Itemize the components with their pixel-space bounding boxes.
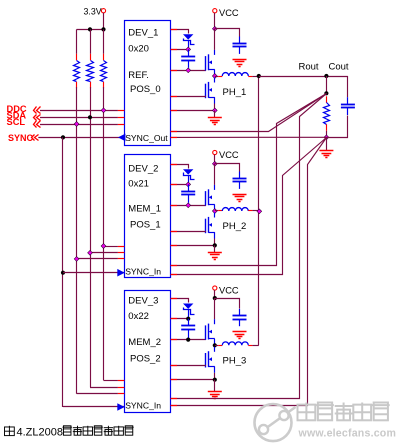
wire resistor R1 top [76,29,78,53]
capacitor C2b boot [181,184,195,202]
junction DEV_2 DDC [101,244,106,249]
pin stubs U1 sense [171,132,177,138]
wire PH_3 lead [215,345,223,347]
svg-text:SYNC_Out: SYNC_Out [125,133,168,143]
wire pin to ground node phase 1 [171,110,215,112]
wire VCC to Q3H drain [214,298,216,319]
svg-text:VCC: VCC [219,286,239,296]
label PH_3 [223,355,247,366]
ground below C2a [233,195,247,202]
svg-text:VCC: VCC [219,8,239,18]
wire resistor R3 top [103,29,105,53]
svg-text:PH_2: PH_2 [223,221,247,232]
wire ground stem phase 1 [214,110,216,117]
svg-text:PH_1: PH_1 [223,87,247,98]
diode D3 zener [183,304,195,315]
wire resistor R2 top [90,29,92,53]
wire Rout bottom [326,131,328,138]
wire SYNC bus vertical x63 [62,137,64,407]
diode D1 zener [183,34,195,44]
wire pin to Q2H gate [171,205,206,207]
transistor Q3L low-side MOSFET [206,347,215,373]
wire VCC to C1a [215,29,240,37]
transistor Q2L low-side MOSFET [206,213,215,239]
svg-text:0x22: 0x22 [128,311,149,322]
svg-text:SYNC_In: SYNC_In [125,400,161,410]
wire to DEV_2 DDC [104,246,118,248]
wire L3 out [248,345,258,347]
pin stub U3 left [118,393,124,395]
svg-text:PH_3: PH_3 [223,355,247,366]
wire pin to Q3L gate [171,365,206,367]
ground below C3a [233,332,247,339]
wire U2 Vout sense [171,94,327,266]
pin SYNC_Out arrow U1 [118,134,125,142]
svg-text:SYNC_In: SYNC_In [125,267,161,277]
node D1/C1b [186,47,191,52]
wire Rout gnd stem [326,137,328,150]
wire D3 to node [188,310,190,319]
wire pin to D2 cathode [171,184,189,186]
power VCC terminal phase 3 [213,286,239,296]
svg-text:Cout: Cout [329,62,349,73]
wire 3.3V down [103,13,105,30]
node ground phase 1 [212,108,217,113]
transistor Q2H high-side MOSFET [206,185,215,211]
capacitor C2a VCC decoupling [233,172,247,189]
junction SCL/x76.6 [74,122,79,127]
wire Q2L source down [214,239,216,246]
wire VCC stem phase 3 [214,290,216,298]
svg-text:DEV_2: DEV_2 [128,163,158,174]
node PH_2 bus [257,209,262,214]
junction SYNC DEV_2 [61,271,65,275]
wire pin to D1 [171,30,189,34]
wire C1b to gate line [188,67,190,70]
pin SYNC_In arrow U2 [117,269,124,277]
controller U3 DEV_3 0x22 [125,291,171,413]
resistor R2 pull-up [87,54,94,89]
capacitor Cout [341,97,355,115]
wire U3 Vout sense [171,94,327,399]
capacitor C1a VCC decoupling [233,37,247,54]
power label 3.3V terminal [84,7,106,17]
wire Q1L source down [214,104,216,111]
wire VCC to C2a [215,164,240,172]
pin stub U1 left [118,117,124,119]
wire SCL [40,124,118,126]
capacitor C1b boot [181,49,195,67]
wire 3.3V rail horizontal [77,29,104,31]
wire VCC to Q2H drain [214,164,216,185]
resistor R1 pull-up [74,54,80,89]
inductor L2 [222,208,248,211]
svg-text:POS_1: POS_1 [130,219,161,230]
watermark logo+text [255,403,397,442]
wire pin to D1 cathode [171,49,189,51]
node N1 sense+ [324,91,328,95]
wire D1 to node [188,41,190,50]
wire SDA [40,117,118,119]
port chevron SCL [34,121,41,128]
node ground phase 2 [213,243,217,247]
wire pin to Q3H gate [171,339,206,341]
power VCC terminal phase 1 [213,8,239,18]
svg-text:3.3V: 3.3V [84,7,102,17]
power VCC terminal phase 2 [213,150,239,160]
node PH_3 [213,343,217,347]
wire pin to D3 [171,299,189,303]
wire DDC [40,110,118,112]
svg-text:POS_0: POS_0 [130,84,161,95]
node D2/C2b [186,182,191,187]
pin stub U2 left [118,246,124,248]
wire C3b to gate line [188,337,190,340]
port chevron SYNC [32,135,39,141]
controller U1 DEV_1 0x20 [125,21,171,146]
wire U1 gnd sense [171,136,327,138]
ground phase 1 [208,118,222,125]
wire C2b to gate line [188,202,190,205]
resistor Rout [324,96,330,131]
wire SCL bus vertical x76.6 [76,87,78,394]
resistor R3 pull-up [101,54,107,89]
junction DDC/x103.5 [101,108,106,113]
svg-text:MEM_2: MEM_2 [128,337,161,348]
svg-text:www.elecfans.com: www.elecfans.com [298,428,397,440]
wire to DEV_3 DDC [104,380,118,382]
wire pin to ground node phase 3 [171,379,215,381]
wire pin to Q2L gate [171,231,206,233]
wire U1 Vout sense [171,94,327,132]
net label SCL [7,117,26,127]
pin stubs U1 right [171,30,177,111]
svg-text:0x20: 0x20 [128,44,149,55]
wire to DEV_2 SYNC_In [63,272,124,274]
node PH_2 [212,209,217,214]
svg-text:SYNC: SYNC [8,133,34,143]
wire Rout top stem [326,76,328,93]
wire VCC stem phase 2 [214,155,216,164]
node VCC phase 2 [212,161,217,166]
pin stub U3 left [118,387,124,389]
label Cout [329,62,349,73]
label PH_2 [223,221,247,232]
pin SYNC_In arrow U3 [117,403,124,411]
ground Rout [319,151,333,158]
node C3b bottom [186,338,190,342]
wire L1 out [248,76,258,78]
junction SDA/x90 [88,115,92,119]
net label DDC [7,104,27,114]
wire SDA bus vertical x90 [90,87,92,387]
capacitor C3b boot [181,319,195,337]
wire to DEV_2 SDA [90,252,118,254]
inductor L3 [222,342,248,345]
wire D2 to node [188,176,190,185]
node C2b bottom [186,203,191,208]
svg-text:POS_2: POS_2 [130,354,161,365]
svg-text:0x21: 0x21 [128,179,149,190]
pin stubs U2 sense [171,266,177,275]
svg-text:4.ZL2008: 4.ZL2008 [17,426,63,438]
wire VCC stem phase 1 [214,13,216,29]
pin stub U2 left [118,258,124,260]
svg-text:DEV_3: DEV_3 [128,296,158,307]
svg-text:VCC: VCC [219,150,239,160]
node output/Rout [324,74,328,78]
title caption [5,426,134,439]
wire to DEV_3 SYNC_In [63,406,124,408]
transistor Q3H high-side MOSFET [206,319,215,345]
wire DDC bus vertical x103.5 [103,87,105,380]
pin stub U3 left [118,380,124,382]
node PH_1 [212,74,217,79]
pin stubs U2 right [171,165,177,246]
wire pin to Q1L gate [171,96,206,98]
svg-text:Rout: Rout [299,62,319,73]
pin stub U1 left [118,110,124,112]
controller U2 DEV_2 0x21 [125,155,171,278]
wire Q3L source down [214,373,216,380]
wire pin to Q1H gate [171,70,206,72]
pin stub U2 left [118,252,124,254]
ground phase 2 [208,253,222,260]
node rail-R3 [101,27,105,31]
node D3/C3b [186,317,190,321]
node ground phase 3 [213,378,217,382]
svg-text:DEV_1: DEV_1 [128,27,158,38]
net label SDA [7,110,27,120]
svg-text:REF.: REF. [128,70,149,81]
wire to DEV_3 SCL [77,393,118,395]
node rail-R2 [88,27,92,31]
ground below C1a [233,60,247,67]
wire VCC to Q1H drain [214,29,216,50]
label PH_1 [223,87,247,98]
wire Cout bottom [327,116,348,138]
junction SYNC/x63 [61,135,65,139]
wire VCC to C3a [215,299,240,309]
junction DEV_2 SCL [74,257,79,262]
transistor Q1L low-side MOSFET [206,78,215,104]
wire U3 gnd sense [171,138,327,406]
wire ground stem phase 2 [214,245,216,252]
wire to DEV_2 SCL [77,258,118,260]
wire ground stem phase 3 [214,380,216,391]
port chevron DDC [34,107,41,114]
inductor L1 [222,73,248,76]
wire PH_2 lead [215,210,223,212]
wire PH_1 lead [215,76,223,78]
wire L2 out [248,210,258,212]
ground phase 3 [208,392,222,399]
wire to DEV_3 SDA [90,387,118,389]
node PH_1 bus [257,74,261,78]
svg-text:MEM_1: MEM_1 [128,204,161,215]
diode D2 zener [183,169,195,179]
wire SYNC [38,137,124,139]
net label SYNC [8,133,34,143]
node C1b bottom [186,68,191,73]
wire PH bus vertical [258,76,260,345]
port chevron SDA [34,115,41,121]
wire pin to D3 cathode [171,318,189,320]
pin stub U1 left [118,124,124,126]
label Rout [299,62,319,73]
pin stubs U3 right [171,299,177,380]
wire Cout top [347,76,349,97]
capacitor C3a VCC decoupling [233,309,247,326]
wire output top [259,76,348,78]
node N2 sense- [324,135,329,140]
wire U2 gnd sense [171,138,327,275]
wire pin to D2 [171,165,189,169]
transistor Q1H high-side MOSFET [206,50,215,76]
node VCC phase 3 [213,296,217,300]
junction DEV_2 SDA [88,250,93,255]
pin stubs U3 sense [171,399,177,406]
wire pin to ground node phase 2 [171,245,215,247]
svg-text:SCL: SCL [7,117,26,127]
node VCC phase 1 [212,26,217,31]
